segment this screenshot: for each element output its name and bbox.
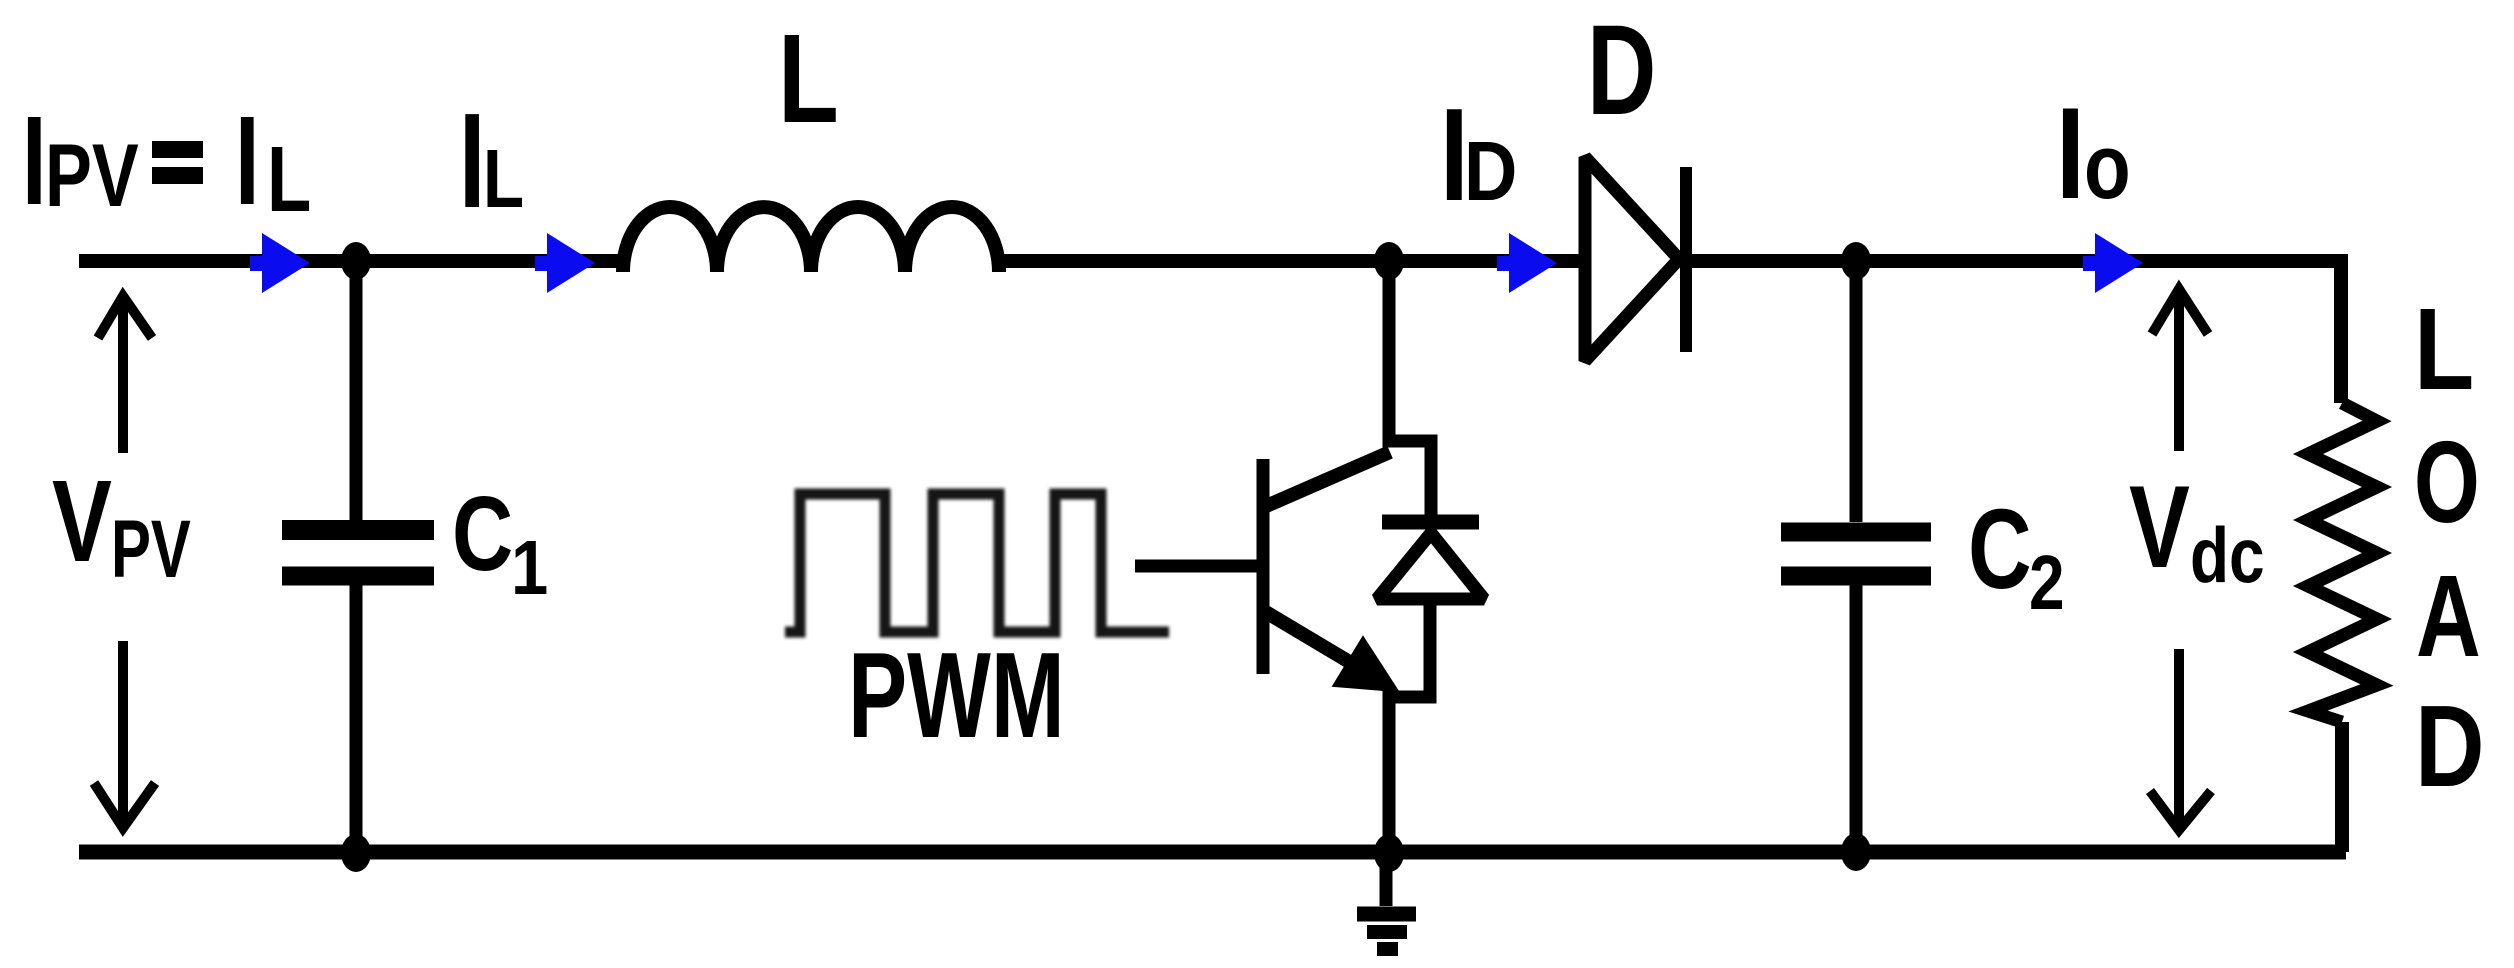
wire LOAD lower lead <box>2335 722 2349 852</box>
diode D cathode bar <box>1680 167 1692 352</box>
svg-text:I: I <box>22 92 47 232</box>
wire gate lead <box>1135 560 1257 573</box>
svg-text:I: I <box>235 92 260 232</box>
svg-text:2: 2 <box>2029 539 2065 625</box>
junction node bottom-left <box>341 834 371 872</box>
bottom rail <box>79 845 2346 860</box>
svg-text:PV: PV <box>111 504 191 595</box>
junction node top-middle (switch tap) <box>1374 242 1404 280</box>
svg-text:1: 1 <box>511 526 548 611</box>
svg-text:O: O <box>2414 417 2480 547</box>
svg-text:L: L <box>2414 284 2474 413</box>
wire diode anode to emitter <box>1389 605 1430 852</box>
wire top output segment <box>1686 261 2341 403</box>
junction node bottom-middle <box>1374 834 1404 872</box>
wire top input segment <box>79 254 626 268</box>
svg-text:I: I <box>459 85 485 236</box>
current arrow Io <box>2083 233 2143 293</box>
svg-text:L: L <box>483 133 524 225</box>
voltage arrow Vdc up <box>2152 289 2208 451</box>
svg-text:D: D <box>1587 0 1656 141</box>
wire C1 lower lead <box>350 576 363 852</box>
svg-text:PWM: PWM <box>848 626 1065 763</box>
ground stub <box>1380 852 1393 906</box>
svg-text:D: D <box>2415 682 2485 811</box>
IGBT emitter diagonal <box>1264 611 1378 679</box>
junction node top-left (C1 tap) <box>341 242 371 280</box>
capacitor C1 bottom plate <box>282 567 434 586</box>
svg-text:A: A <box>2416 551 2481 681</box>
PWM waveform <box>785 494 1169 632</box>
diode D triangle <box>1585 157 1679 361</box>
wire IGBT collector <box>1389 261 1431 516</box>
freewheel diode triangle <box>1377 533 1484 599</box>
wire C1 upper lead <box>350 261 363 530</box>
svg-text:V: V <box>52 456 112 586</box>
ground bar 2 <box>1367 925 1407 939</box>
IGBT collector diagonal <box>1264 452 1390 507</box>
capacitor C2 bottom plate <box>1781 567 1931 586</box>
voltage arrow Vdc down <box>2150 649 2211 830</box>
ground bar 3 <box>1377 942 1398 956</box>
junction node bottom-right <box>1841 833 1871 871</box>
current arrow ID <box>1497 233 1557 293</box>
voltage arrow VPV down <box>94 641 155 828</box>
ground bar 1 <box>1357 907 1416 922</box>
svg-text:dc: dc <box>2190 512 2265 599</box>
voltage arrow VPV up <box>98 296 152 453</box>
wire inductor to switch node <box>996 254 1581 268</box>
inductor L <box>623 207 999 272</box>
capacitor C2 top plate <box>1781 523 1931 542</box>
current arrow IL <box>535 233 595 293</box>
junction node top-right (C2 tap) <box>1841 242 1871 280</box>
capacitor C1 top plate <box>282 520 434 540</box>
IGBT emitter arrowhead <box>1335 639 1396 690</box>
svg-text:o: o <box>2084 114 2131 217</box>
svg-text:PV: PV <box>45 125 139 225</box>
svg-text:V: V <box>2129 462 2190 592</box>
svg-text:I: I <box>2056 80 2085 226</box>
resistor LOAD zigzag <box>2308 403 2377 722</box>
wire C2 upper lead <box>1850 261 1863 522</box>
svg-text:L: L <box>267 127 311 231</box>
freewheel diode cathode bar <box>1382 515 1479 530</box>
svg-text:L: L <box>778 9 839 150</box>
wire C2 lower lead <box>1850 576 1863 852</box>
current arrow IPV <box>250 233 310 293</box>
svg-text:C: C <box>1968 487 2032 613</box>
svg-text:D: D <box>1464 124 1517 218</box>
svg-text:C: C <box>452 475 513 593</box>
IGBT Q gate bar <box>1257 459 1270 674</box>
